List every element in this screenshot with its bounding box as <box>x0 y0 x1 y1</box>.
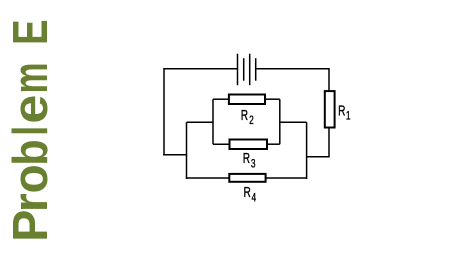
wire left connector to node L <box>163 154 187 156</box>
svg-text:P: P <box>3 210 57 242</box>
wire R2 left lead <box>213 98 229 100</box>
resistor R3 <box>230 140 268 150</box>
wire R3 right lead <box>267 143 280 145</box>
label R4 <box>244 183 257 205</box>
svg-text:R: R <box>243 149 250 167</box>
svg-text:b: b <box>2 139 57 165</box>
svg-text:E: E <box>3 19 58 44</box>
svg-text:1: 1 <box>346 109 351 123</box>
wire R2/R3 right vertical <box>279 99 281 144</box>
resistor R2 <box>229 95 265 105</box>
battery B1 <box>238 54 256 85</box>
wire right vertical to node R <box>306 122 308 179</box>
wire R2/R3 left vertical <box>212 99 214 144</box>
svg-text:R: R <box>338 101 345 119</box>
label R1 <box>338 101 351 123</box>
wire mid-level left connector <box>187 121 214 123</box>
label R3 <box>243 149 256 171</box>
wire node R to R1 bottom <box>307 128 329 157</box>
svg-text:m: m <box>3 62 58 93</box>
title "Problem E" (rotated) <box>2 19 58 241</box>
svg-text:4: 4 <box>252 191 257 205</box>
svg-text:R: R <box>244 183 251 201</box>
svg-text:l: l <box>3 126 58 136</box>
svg-text:2: 2 <box>249 114 254 128</box>
wire R4 left lead <box>187 177 230 179</box>
svg-text:R: R <box>241 106 248 124</box>
wire node L vertical <box>186 122 188 179</box>
svg-text:3: 3 <box>251 157 256 171</box>
svg-text:r: r <box>4 193 58 212</box>
label R2 <box>241 106 254 128</box>
wire top-left (battery left terminal to left corner) <box>164 69 238 155</box>
wire battery right terminal to R1 top <box>256 69 329 91</box>
resistor R1 <box>325 91 335 127</box>
svg-text:o: o <box>3 164 58 193</box>
wire R2 right lead <box>265 98 280 100</box>
resistor R4 <box>229 174 265 182</box>
wire R4 right lead <box>266 177 307 179</box>
wire R3 left lead <box>213 143 230 145</box>
svg-text:e: e <box>2 95 57 124</box>
wire mid-level right connector <box>280 121 307 123</box>
